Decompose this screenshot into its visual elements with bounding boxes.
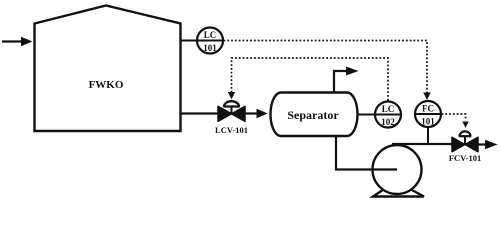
svg-text:FWKO: FWKO: [89, 79, 124, 91]
wire FWKO to LC-101: [181, 40, 198, 42]
svg-text:FCV-101: FCV-101: [449, 153, 481, 163]
valve FCV-101: [452, 137, 465, 152]
wire FCV-101 outlet arrow: [478, 143, 486, 145]
svg-text:LCV-101: LCV-101: [215, 125, 248, 135]
svg-text:FC: FC: [422, 104, 434, 114]
pump P-101: [373, 145, 422, 194]
instrument LC-101: [197, 28, 223, 54]
signal LC-102 to LCV-101 (dotted): [232, 58, 389, 101]
svg-text:Separator: Separator: [287, 108, 339, 122]
valve LCV-101: [218, 106, 232, 121]
wire gas outlet with arrow: [334, 71, 346, 92]
wire Separator bottom to pump: [336, 136, 397, 170]
vessel Separator: [271, 93, 358, 137]
wire LCV-101 to Separator with arrow: [245, 112, 259, 114]
instrument FC-101: [415, 101, 441, 127]
wire pump discharge to FCV-101: [392, 143, 452, 145]
wire FC-101 to pump discharge pipe: [427, 127, 429, 144]
instrument LC-102: [375, 102, 401, 128]
svg-text:102: 102: [381, 117, 395, 127]
svg-text:101: 101: [203, 43, 217, 53]
svg-text:LC: LC: [382, 104, 395, 114]
svg-text:LC: LC: [204, 30, 217, 40]
vessel FWKO: [35, 6, 181, 132]
svg-text:101: 101: [421, 117, 435, 127]
wire Separator to LC-102: [357, 114, 376, 116]
signal FC-101 to FCV-101 (dotted): [442, 114, 466, 121]
signal LC-101 to FC-101 (dotted): [224, 41, 428, 94]
wire FWKO outlet to LCV-101: [181, 112, 219, 114]
wire inlet arrow to FWKO: [2, 40, 22, 42]
